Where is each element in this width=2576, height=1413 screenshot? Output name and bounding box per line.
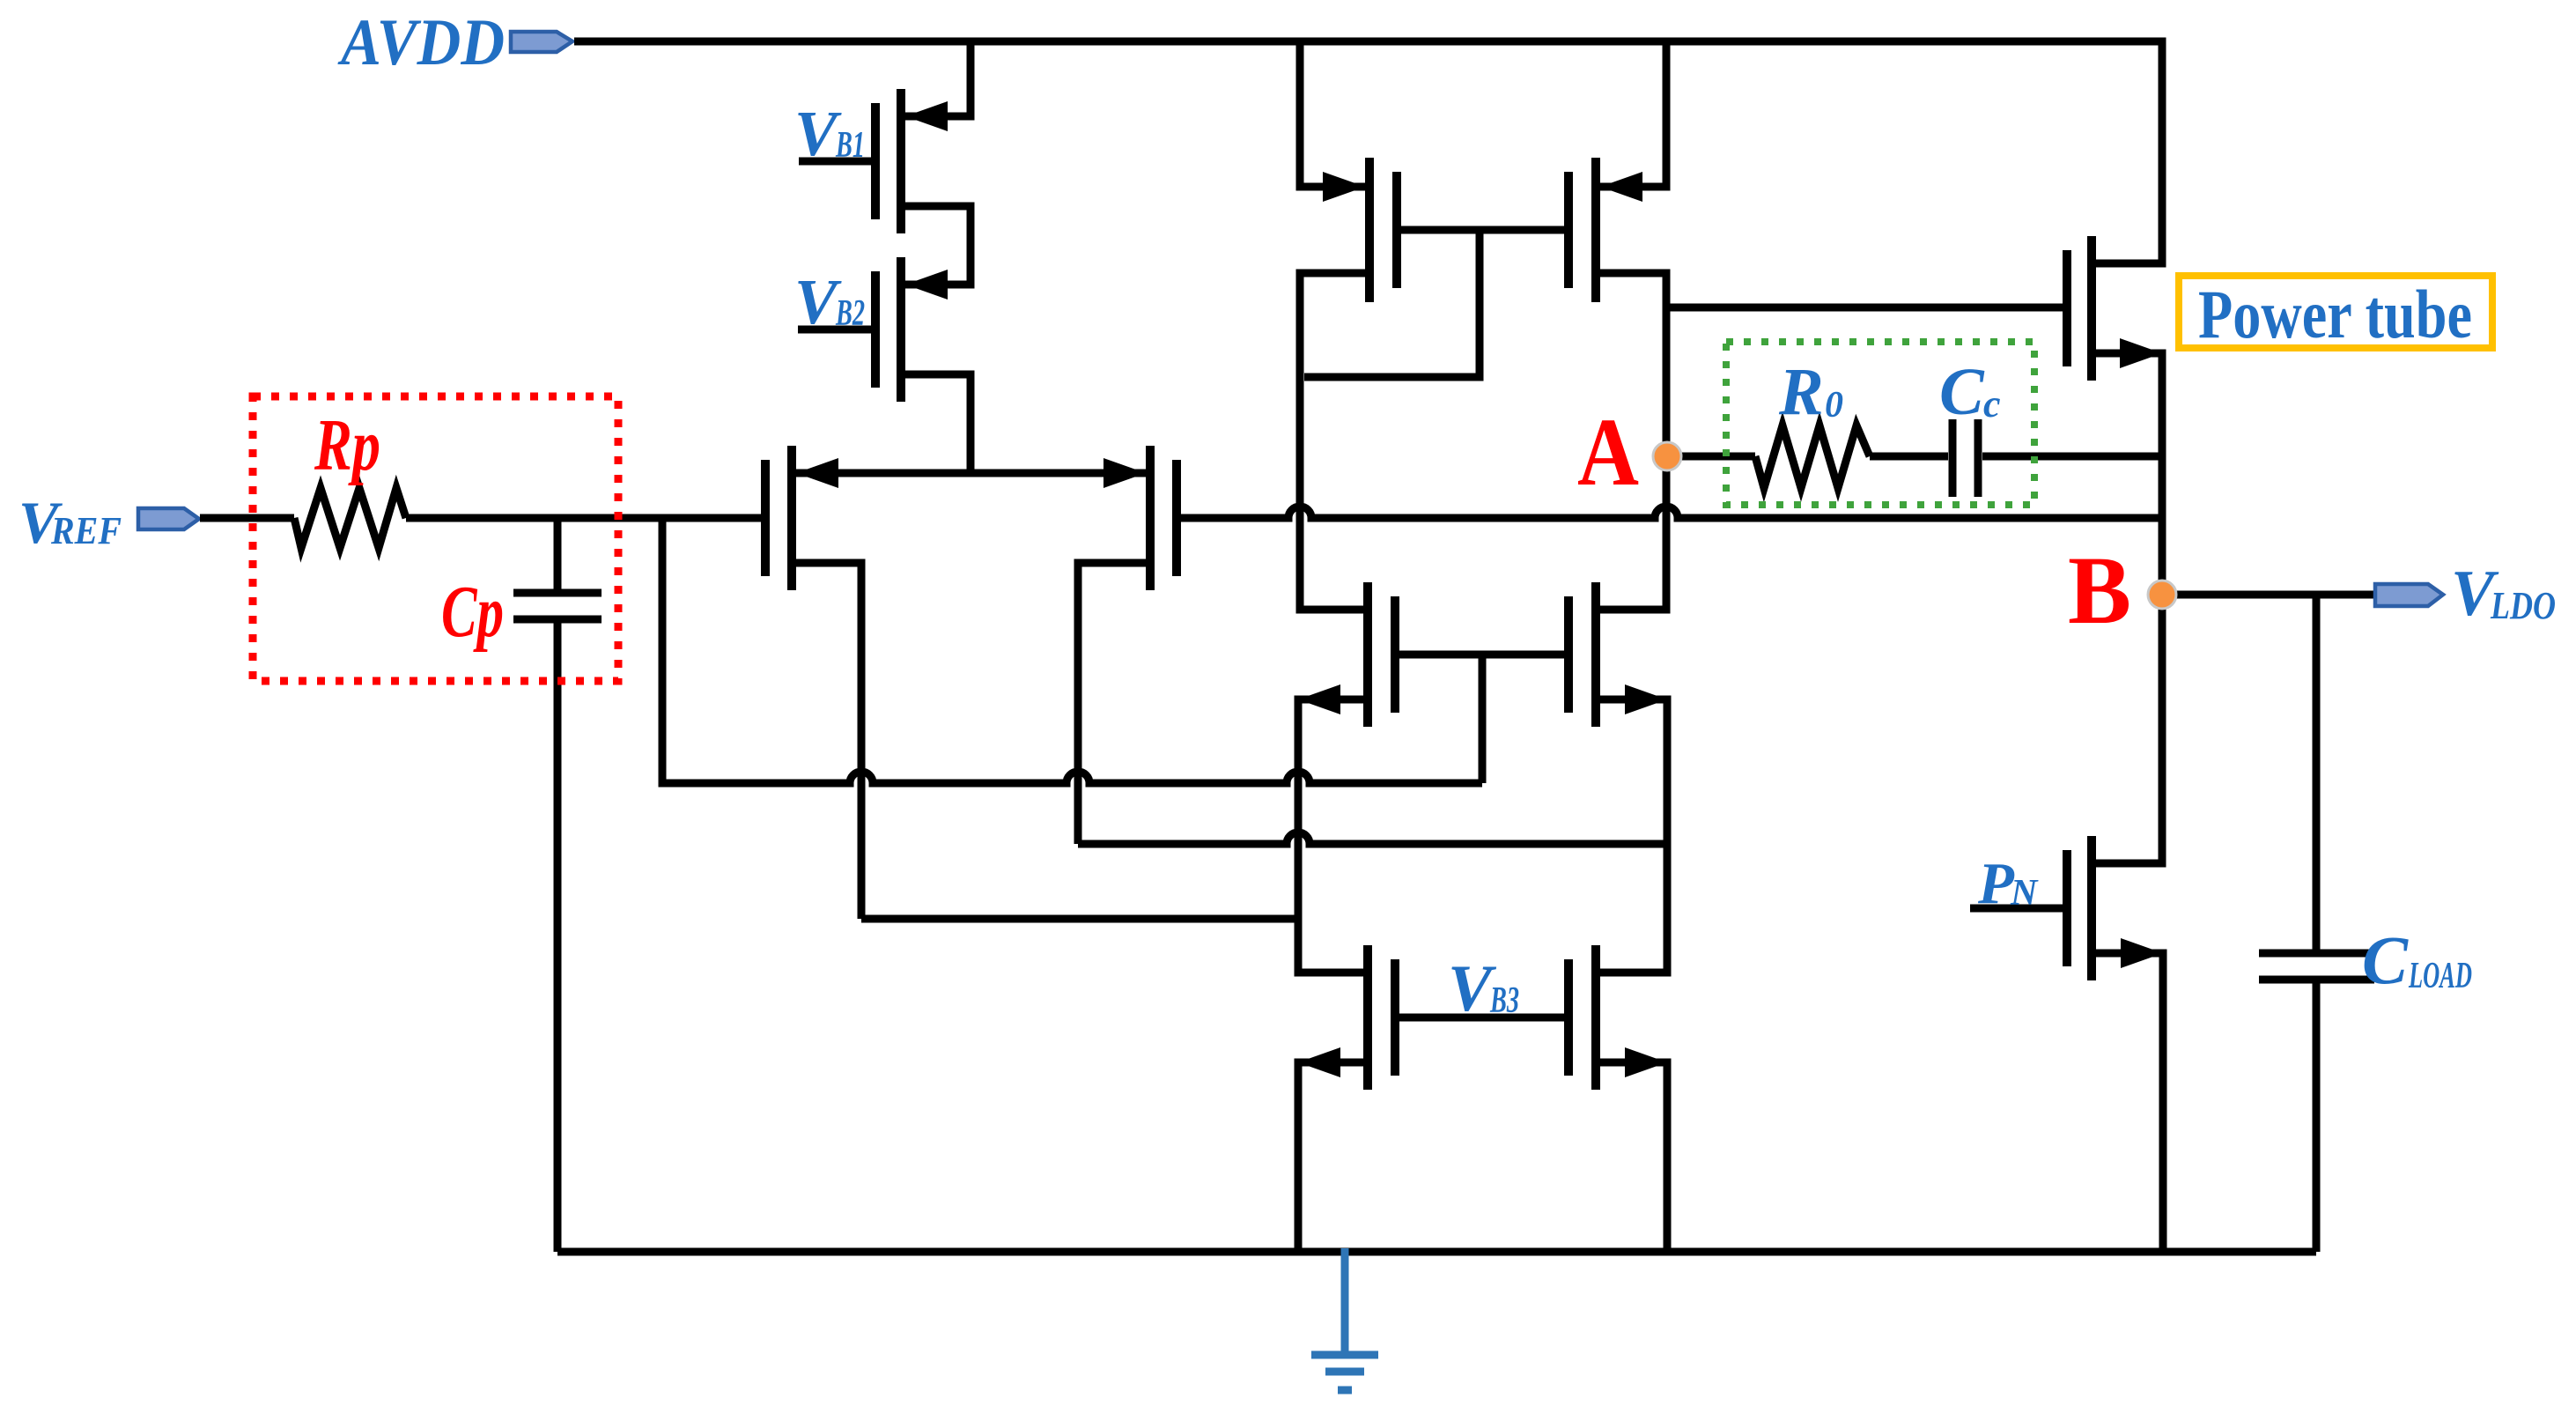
box RC filter (red dotted) — [253, 396, 618, 681]
transistor M7 (NMOS current sink left, gate VB3) — [1298, 945, 1399, 1090]
wire M7-M8 gate tie — [1399, 1014, 1564, 1022]
wire R0 to Cc — [1870, 453, 1948, 461]
wire Rp to M1 gate (node with Cp tap) — [406, 514, 761, 522]
ground symbol — [1311, 1248, 1378, 1390]
port VREF (input pin) — [138, 508, 199, 529]
label AVDD — [337, 6, 505, 79]
wire node A riser to power tube gate — [1666, 304, 2063, 312]
wire Q1 source to Q2 drain — [905, 206, 971, 285]
svg-text:Rp: Rp — [314, 404, 380, 486]
resistor R0 — [1755, 425, 1870, 488]
wire PN gate lead — [1970, 905, 2063, 913]
wire feedback: M2 gate to node B — [1181, 507, 2162, 518]
svg-text:N: N — [2010, 873, 2039, 914]
label Rp — [314, 404, 380, 486]
wire AVDD rail (top supply to power tube drain) — [574, 41, 2162, 263]
wire node B to VLDO port — [2162, 591, 2373, 599]
wire gate bias bus from VREF node — [662, 518, 1482, 783]
svg-text:V: V — [794, 98, 842, 169]
transistor MP (power tube NMOS) — [2063, 236, 2162, 381]
port VLDO (output pin) — [2375, 584, 2443, 606]
wire MN source to ground rail — [2096, 953, 2163, 1252]
wire Cp bottom plate to ground rail — [554, 619, 562, 1252]
transistor M5 (NMOS cascode left) — [1298, 582, 1399, 727]
svg-text:Cp: Cp — [441, 571, 504, 653]
transistor Q2 (PMOS, gate VB2) — [798, 257, 948, 402]
wire M2 drain down to folded node right — [1078, 563, 1146, 844]
svg-text:B2: B2 — [835, 293, 865, 334]
label VB1 — [794, 98, 865, 169]
wire AVDD rail to Q1 drain — [905, 41, 971, 116]
transistor M2 (PMOS diff pair right, gate feedback from B) — [1103, 446, 1181, 590]
wire M3-M4 gate tie — [1401, 226, 1564, 234]
resistor Rp — [294, 488, 406, 548]
wire power tube source / node B column — [2096, 353, 2162, 863]
wire Cc to node B column — [1982, 453, 2162, 461]
label Cp — [441, 571, 504, 653]
svg-text:B: B — [2068, 536, 2131, 644]
svg-text:AVDD: AVDD — [337, 6, 505, 79]
wire node A to R0 — [1667, 453, 1755, 461]
transistor M6 (NMOS cascode right) — [1564, 582, 1667, 727]
label PN — [1977, 851, 2039, 916]
svg-text:LDO: LDO — [2490, 584, 2556, 627]
wire M5 source to M7 drain — [1298, 699, 1363, 973]
transistor M8 (NMOS current sink right, gate VB3) — [1564, 945, 1667, 1090]
transistor MN (NMOS, gate PN) — [2063, 836, 2163, 980]
svg-text:c: c — [1983, 382, 2001, 425]
capacitor Cp — [513, 593, 602, 619]
label VREF — [18, 489, 122, 556]
wire Q2 source to diff pair tail — [905, 374, 971, 473]
svg-text:B1: B1 — [835, 125, 865, 166]
box compensation network (green dotted) — [1726, 342, 2034, 505]
wire VREF to Rp — [200, 514, 294, 522]
wire node to Cp top plate — [554, 518, 562, 593]
svg-text:LOAD: LOAD — [2408, 956, 2472, 996]
svg-text:0: 0 — [1825, 385, 1843, 425]
wire M1 drain down to folded node left — [796, 563, 861, 919]
wire CLOAD bottom to ground rail — [2313, 980, 2321, 1252]
capacitor Cc — [1952, 419, 1978, 497]
wire M2 drain node to M6 source — [1078, 832, 1667, 844]
label VB3 — [1448, 952, 1519, 1025]
svg-text:REF: REF — [50, 509, 122, 552]
label VLDO — [2451, 558, 2556, 630]
capacitor CLOAD — [2259, 953, 2374, 980]
svg-text:V: V — [794, 266, 842, 337]
wire ground rail (bottom) — [557, 1248, 2316, 1256]
label R0 — [1778, 355, 1843, 429]
label CLOAD — [2362, 921, 2472, 998]
svg-text:C: C — [2362, 921, 2409, 998]
wire AVDD rail to M3 source — [1300, 41, 1365, 187]
wire M1 drain node to M5 source — [861, 915, 1298, 923]
node A — [1653, 442, 1681, 470]
wire gate tie to M3 drain (diode connection) — [1304, 230, 1480, 377]
label A — [1577, 398, 1639, 506]
wire M8 source to ground rail — [1600, 1062, 1667, 1252]
node B — [2148, 581, 2176, 609]
wire M7 source to ground rail — [1298, 1062, 1363, 1252]
label Power tube — [2198, 276, 2472, 352]
port AVDD (input pin) — [511, 32, 572, 52]
wire gate bus riser — [1479, 655, 1487, 783]
label Cc — [1939, 355, 2001, 429]
label B — [2068, 536, 2131, 644]
transistor Q1 (PMOS, gate VB1) — [799, 89, 948, 233]
wire M3 drain cascode down to M5 drain — [1300, 273, 1365, 610]
svg-text:R: R — [1778, 355, 1824, 429]
transistor M4 (PMOS mirror right) — [1564, 158, 1642, 302]
svg-text:Power tube: Power tube — [2198, 276, 2472, 352]
wire M6 source to M8 drain — [1600, 699, 1667, 973]
wire diff pair tail (sources of M1,M2) — [796, 470, 1146, 477]
svg-text:P: P — [1977, 851, 2015, 916]
transistor M3 (PMOS mirror left, diode connected) — [1323, 158, 1401, 302]
svg-text:A: A — [1577, 398, 1639, 506]
label VB2 — [794, 266, 865, 337]
wire M5-M6 gate tie — [1399, 651, 1564, 659]
transistor M1 (PMOS diff pair left, gate from VREF) — [761, 446, 838, 590]
wire AVDD rail to M4 source — [1600, 41, 1666, 187]
wire M4 drain to node A and M6 drain — [1600, 273, 1666, 610]
wire node B to CLOAD top — [2313, 595, 2321, 953]
box Power tube label (orange) — [2179, 276, 2492, 348]
svg-text:C: C — [1939, 355, 1985, 429]
svg-text:B3: B3 — [1489, 980, 1519, 1021]
